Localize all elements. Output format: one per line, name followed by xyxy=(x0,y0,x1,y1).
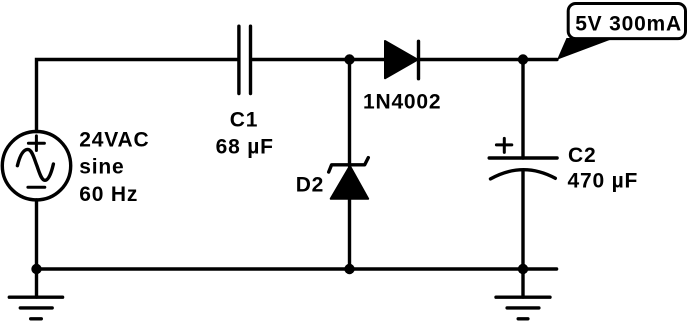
svg-text:sine: sine xyxy=(79,156,124,179)
svg-text:C1: C1 xyxy=(230,109,258,132)
wire diode cathode to callout tail xyxy=(419,58,558,61)
zener diode D2 triangle xyxy=(331,166,369,199)
svg-text:C2: C2 xyxy=(568,144,596,167)
wire bottom rail xyxy=(37,267,557,270)
capacitor C2 bottom curved plate xyxy=(491,170,556,179)
node junction bottom-C2 xyxy=(518,264,528,274)
svg-text:470 µF: 470 µF xyxy=(568,170,639,193)
svg-text:1N4002: 1N4002 xyxy=(363,91,441,114)
ground right xyxy=(496,297,550,319)
node junction diode-C2-output xyxy=(518,54,528,64)
capacitor C1 plates xyxy=(239,26,251,93)
zener diode D2 cathode bar xyxy=(329,158,369,172)
capacitor C2 top plate xyxy=(489,156,557,159)
wire zener bottom branch xyxy=(348,199,351,269)
capacitor C2 plus sign xyxy=(496,138,511,152)
wire source bottom down to left ground xyxy=(35,200,38,297)
wire top-left: from source up and right to C1 xyxy=(37,60,238,132)
wire C2 bottom branch to right ground xyxy=(521,171,524,297)
node junction bottom-zener xyxy=(344,264,354,274)
svg-text:68 µF: 68 µF xyxy=(216,135,274,158)
svg-text:5V 300mA: 5V 300mA xyxy=(575,13,682,36)
ground left xyxy=(9,297,62,319)
voltage source V1 sine wave xyxy=(17,149,53,180)
wire C1 right plate to diode anode xyxy=(252,58,385,61)
wire C2 top branch xyxy=(521,60,524,159)
svg-text:60 Hz: 60 Hz xyxy=(79,183,138,206)
svg-text:24VAC: 24VAC xyxy=(79,128,149,151)
node junction bottom-left xyxy=(31,264,41,274)
diode D1 triangle xyxy=(385,41,418,78)
wire zener top branch xyxy=(348,60,351,167)
voltage source minus sign xyxy=(28,186,45,189)
diode D1 cathode bar xyxy=(417,41,420,78)
callout box 5V 300mA xyxy=(568,4,685,39)
node junction C1-diode-zener xyxy=(344,54,354,64)
voltage source plus sign xyxy=(28,136,44,151)
callout tail xyxy=(557,38,615,60)
voltage source V1 circle xyxy=(2,132,70,200)
svg-text:D2: D2 xyxy=(296,174,324,197)
